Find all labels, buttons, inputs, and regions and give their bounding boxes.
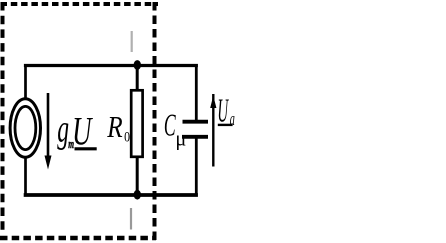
svg-text:a: a	[230, 110, 235, 130]
svg-text:g: g	[57, 107, 69, 150]
svg-text:0: 0	[124, 128, 130, 144]
svg-text:R: R	[106, 111, 122, 145]
svg-text:C: C	[164, 107, 176, 143]
svg-text:μ: μ	[175, 126, 186, 151]
